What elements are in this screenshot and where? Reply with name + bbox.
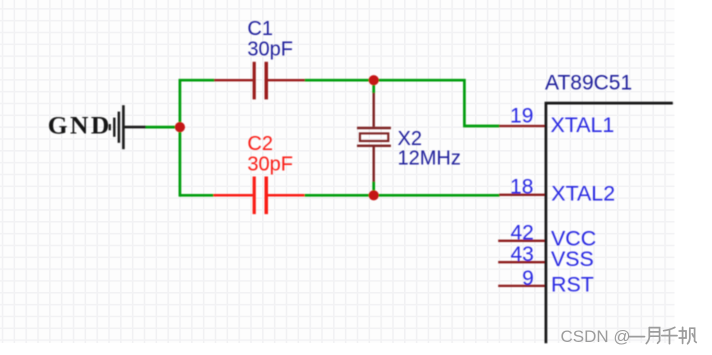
svg-text:43: 43 [510, 243, 533, 266]
svg-text:GND: GND [48, 111, 112, 140]
svg-text:42: 42 [510, 222, 533, 245]
svg-text:18: 18 [510, 175, 533, 198]
svg-text:XTAL2: XTAL2 [551, 181, 615, 205]
svg-text:9: 9 [522, 267, 534, 290]
svg-text:30pF: 30pF [247, 38, 293, 60]
svg-text:VSS: VSS [551, 247, 594, 271]
svg-text:C1: C1 [247, 18, 273, 40]
svg-text:AT89C51: AT89C51 [545, 71, 632, 94]
svg-text:12MHz: 12MHz [398, 148, 461, 170]
svg-text:CSDN @: CSDN @ [561, 327, 631, 346]
svg-text:30pF: 30pF [247, 153, 293, 175]
svg-text:XTAL1: XTAL1 [551, 113, 615, 137]
svg-text:RST: RST [551, 272, 594, 296]
svg-text:19: 19 [510, 105, 533, 128]
svg-text:C2: C2 [247, 133, 273, 155]
